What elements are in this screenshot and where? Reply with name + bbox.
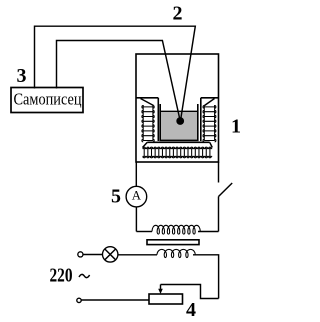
wire: furnace right down to switch (218, 162, 220, 183)
melt surface line (161, 110, 197, 112)
wire: wiper to secondary return (161, 285, 219, 299)
wire: ammeter to bottom rail (135, 207, 137, 232)
wire: bottom rail left segment (136, 231, 152, 233)
heater lead bottom-left (floor to bottom coil) (143, 142, 148, 147)
ammeter U5 circle (126, 186, 147, 207)
heater lead-in left (rim to left coil) (141, 99, 154, 106)
svg-text:A: A (132, 188, 142, 202)
wire: recorder outer lead over the top to thermocouple (35, 26, 196, 120)
svg-text:220: 220 (50, 264, 73, 286)
heating coil left column (142, 105, 154, 142)
lamp (indicator) (103, 247, 118, 262)
crucible (beaker) in furnace (160, 104, 198, 140)
svg-text:3: 3 (17, 65, 27, 87)
upper supply terminal (78, 252, 83, 257)
wire: lower terminal to rheostat (81, 299, 149, 301)
wire: furnace left to ammeter (135, 162, 137, 186)
wire: switch to bottom rail (218, 197, 220, 232)
transformer primary coil (152, 225, 200, 234)
svg-text:Самописец: Самописец (14, 90, 82, 109)
wire: lamp to upper supply terminal (83, 254, 102, 256)
svg-text:5: 5 (111, 185, 121, 207)
wire: secondary right down to rheostat loop (193, 255, 219, 299)
switch blade (219, 183, 233, 197)
svg-text:4: 4 (186, 299, 196, 321)
recorder box (Самописец) (11, 88, 83, 113)
furnace outer body (136, 54, 219, 162)
heater lead-in right (rim to right coil) (205, 99, 215, 106)
furnace rim left segment (136, 97, 158, 99)
lower supply terminal (77, 298, 81, 302)
wire: recorder inner lead to thermocouple (57, 41, 181, 121)
furnace cavity right wall (200, 98, 202, 141)
thermocouple junction dot (176, 117, 184, 125)
furnace cavity floor (147, 141, 209, 143)
furnace rim right segment (201, 97, 219, 99)
svg-text:1: 1 (231, 116, 241, 138)
melt (gray liquid) (161, 112, 197, 140)
transformer core bar (147, 240, 199, 245)
transformer secondary coil (157, 249, 195, 257)
rheostat R4 body (149, 294, 183, 304)
heating coil right column (203, 105, 216, 142)
furnace cavity left wall (157, 98, 159, 141)
svg-text:2: 2 (173, 3, 183, 25)
heating coil bottom row (143, 147, 213, 158)
wire: bottom rail right segment (198, 231, 219, 233)
heater lead bottom-right (floor to bottom coil) (210, 142, 213, 147)
rheostat wiper arrow (160, 285, 162, 291)
wire: secondary left to lamp (118, 254, 157, 256)
